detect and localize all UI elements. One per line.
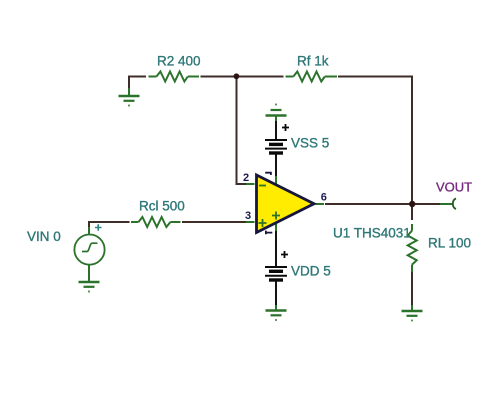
svg-text:2: 2	[243, 172, 249, 184]
svg-text:R2 400: R2 400	[157, 54, 201, 69]
svg-text:3: 3	[245, 210, 251, 222]
svg-text:VSS 5: VSS 5	[291, 136, 329, 151]
svg-text:VDD 5: VDD 5	[291, 264, 331, 279]
svg-text:U1 THS4031: U1 THS4031	[333, 226, 411, 241]
svg-text:6: 6	[321, 192, 327, 204]
svg-text:Rcl 500: Rcl 500	[139, 199, 185, 214]
svg-text:VOUT: VOUT	[436, 180, 472, 195]
svg-text:RL 100: RL 100	[428, 236, 471, 251]
svg-text:VIN 0: VIN 0	[27, 229, 61, 244]
svg-text:Rf 1k: Rf 1k	[297, 54, 329, 69]
